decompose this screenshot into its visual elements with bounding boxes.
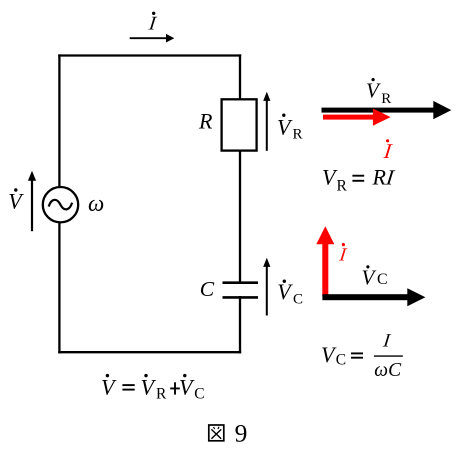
- svg-text:R: R: [381, 91, 391, 107]
- figure label ZU (drawn kanji): [209, 425, 224, 441]
- phasor V_R black arrow: [322, 101, 452, 119]
- wire top: [58, 54, 241, 56]
- arrow V_C (circuit): [263, 258, 270, 316]
- AC source (circle with sine): [43, 187, 78, 222]
- phasor label V-dot C: [362, 265, 388, 289]
- svg-text:R: R: [293, 126, 303, 142]
- svg-text:C: C: [377, 271, 388, 288]
- svg-text:C: C: [194, 386, 204, 403]
- phasor label I-dot red: [381, 139, 395, 163]
- svg-text:ωC: ωC: [374, 360, 402, 381]
- phasor label V-dot R: [366, 78, 391, 107]
- phasor label I-dot red 2: [337, 243, 349, 265]
- source voltage arrow: [28, 171, 36, 231]
- wire left upper: [58, 54, 60, 190]
- arrow V_R (circuit): [263, 92, 270, 151]
- label V-dot (source voltage): [8, 188, 24, 213]
- svg-text:C: C: [336, 352, 346, 369]
- svg-text:V: V: [366, 78, 381, 102]
- equation V_R = RI: [322, 165, 398, 195]
- svg-text:C: C: [293, 291, 303, 307]
- current direction arrow: [130, 34, 175, 43]
- svg-text:V: V: [362, 266, 377, 290]
- svg-text:C: C: [200, 277, 215, 301]
- svg-text:R: R: [198, 108, 213, 133]
- wire left lower: [58, 220, 60, 353]
- svg-text:9: 9: [235, 418, 248, 447]
- wire right upper: [239, 54, 241, 100]
- resistor R (box): [222, 99, 257, 150]
- svg-text:R: R: [156, 386, 167, 403]
- equation V_C = I / (omega C): [321, 331, 403, 381]
- svg-text:R: R: [337, 178, 348, 195]
- wire bottom: [58, 351, 241, 353]
- phasor I red arrow (horizontal): [323, 109, 391, 126]
- capacitor C (plates): [223, 283, 259, 298]
- wire right lower: [239, 296, 241, 353]
- label V-dot C (circuit): [277, 279, 303, 307]
- phasor V_C black arrow: [322, 288, 425, 306]
- wire right middle: [239, 150, 241, 285]
- phasor I red arrow (vertical): [316, 226, 334, 296]
- svg-text:ω: ω: [88, 191, 104, 216]
- label I-dot (current, top): [146, 12, 159, 35]
- equation V-dot = V-dot R + V-dot C: [101, 374, 205, 403]
- label V-dot R (circuit): [277, 114, 303, 143]
